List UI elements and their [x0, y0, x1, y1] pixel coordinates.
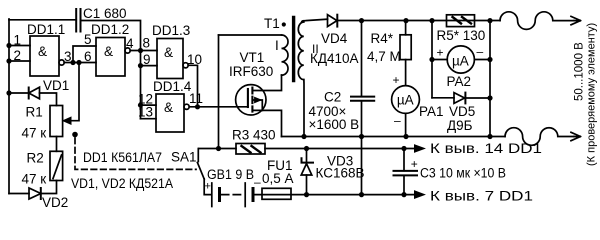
- svg-text:VD1, VD2 КД521А: VD1, VD2 КД521А: [71, 176, 173, 191]
- svg-text:R3 430: R3 430: [232, 128, 276, 143]
- node pin5 tie: [70, 60, 75, 65]
- node VD3 top: [304, 146, 309, 151]
- node pin1 rail: [6, 43, 11, 48]
- fuse FU1: [262, 188, 291, 199]
- wire VD5 right: [465, 97, 490, 99]
- svg-text:GB1 9 В: GB1 9 В: [207, 167, 254, 182]
- wire tie pins 9,12,13: [140, 51, 142, 119]
- wire mechanical dashed link: [75, 138, 196, 169]
- resistor R1: [50, 106, 63, 137]
- capacitor C2: [361, 21, 363, 97]
- wire C2 to ground: [361, 101, 363, 195]
- wire HV probe top wavy: [500, 12, 574, 30]
- wire SA1 drop: [197, 149, 199, 162]
- node C1/pin4/pin8: [138, 48, 143, 53]
- battery GB1 cell2: [244, 183, 246, 207]
- wire PA2 left column: [431, 21, 433, 98]
- svg-text:11: 11: [189, 91, 203, 106]
- node VD5 right: [487, 95, 492, 100]
- node R5 left: [429, 18, 434, 23]
- svg-text:+: +: [411, 157, 418, 171]
- svg-text:КД410А: КД410А: [310, 51, 359, 66]
- resistor R3: [236, 144, 265, 155]
- svg-text:10: 10: [187, 52, 202, 67]
- transistor VT1 body circle: [236, 85, 266, 115]
- node pin2 rail: [6, 58, 11, 63]
- svg-text:IRF630: IRF630: [229, 64, 273, 79]
- wire primary top: [219, 34, 282, 36]
- svg-text:DD1.3: DD1.3: [152, 23, 190, 38]
- wire secondary top to VD4: [302, 19, 328, 22]
- svg-text:0,5 А: 0,5 А: [262, 171, 294, 186]
- svg-text:К выв. 7 DD1: К выв. 7 DD1: [430, 189, 533, 204]
- R2 adjust diagonal: [53, 155, 62, 179]
- svg-text:R4*: R4*: [371, 31, 394, 46]
- svg-text:47 к: 47 к: [22, 172, 47, 187]
- svg-text:DD1 К561ЛА7: DD1 К561ЛА7: [83, 150, 162, 165]
- svg-text:13: 13: [138, 105, 153, 120]
- svg-text:5: 5: [84, 32, 92, 47]
- svg-text:КС168В: КС168В: [316, 166, 365, 181]
- svg-text:+: +: [393, 73, 400, 87]
- wire R2 bottom: [42, 181, 57, 194]
- wire HV return rail1: [282, 136, 506, 138]
- svg-text:2: 2: [14, 48, 22, 63]
- node C2 rail1: [359, 134, 364, 139]
- DD1.1 output bubble: [59, 60, 64, 65]
- svg-text:T1: T1: [264, 16, 280, 31]
- wire pin4 to pin8: [130, 50, 157, 52]
- svg-text:&: &: [164, 45, 173, 60]
- arrow HV probe top: [571, 16, 581, 24]
- svg-text:I: I: [275, 38, 279, 53]
- wire R1 wiper: [66, 63, 79, 121]
- VT1 drain stub: [252, 75, 281, 91]
- svg-text:9: 9: [143, 52, 151, 67]
- VT1 source stub: [252, 110, 281, 136]
- svg-text:+: +: [205, 181, 211, 193]
- svg-text:C2: C2: [324, 90, 341, 105]
- wire pin1: [9, 45, 30, 47]
- arrow to pin7: [415, 191, 425, 198]
- VT1 channel bar: [251, 88, 253, 112]
- node PA2 right: [487, 57, 492, 62]
- R3 power slashes: [242, 146, 261, 153]
- wire pin10 down to pin11: [188, 65, 197, 107]
- wire SA1 to battery: [204, 179, 211, 195]
- T1 polarity dot: [282, 22, 286, 26]
- svg-text:47 к: 47 к: [22, 126, 47, 141]
- svg-text:С3 10 мк ×10 В: С3 10 мк ×10 В: [420, 166, 506, 181]
- wire VD1 to R1: [40, 93, 57, 106]
- arrow HV probe bottom: [571, 132, 581, 140]
- svg-text:3: 3: [64, 49, 72, 64]
- wire plus9V vertical: [218, 35, 220, 149]
- node pin10/11: [195, 104, 200, 109]
- resistor R5: [447, 15, 475, 27]
- VT1 body arrow: [252, 100, 262, 110]
- svg-text:VT1: VT1: [240, 50, 265, 65]
- wire PA2 left stub: [432, 59, 447, 61]
- wire R1 to R2: [56, 137, 58, 152]
- svg-text:–: –: [254, 175, 261, 189]
- node R5 right: [487, 18, 492, 23]
- svg-text:C1 680: C1 680: [83, 6, 127, 21]
- wire pin13 stub: [141, 118, 157, 120]
- svg-text:R2: R2: [27, 151, 44, 166]
- transformer T1 primary winding: [282, 35, 289, 75]
- node PA2 left: [429, 57, 434, 62]
- meter PA2: [447, 46, 474, 73]
- svg-text:–: –: [477, 45, 484, 59]
- arrow to pin14: [415, 145, 425, 152]
- svg-text:+: +: [437, 46, 444, 60]
- svg-text:×1600 В: ×1600 В: [309, 117, 360, 132]
- svg-text:R1: R1: [26, 105, 43, 120]
- node wiper pin3: [76, 60, 81, 65]
- DD1.2 output bubble: [125, 48, 130, 53]
- svg-text:µА: µА: [397, 93, 414, 108]
- R1 wiper arrowhead: [63, 117, 71, 124]
- svg-text:8: 8: [143, 36, 151, 51]
- transformer T1 core: [292, 18, 295, 81]
- svg-text:R5* 130: R5* 130: [437, 28, 486, 43]
- node PA1 bottom: [403, 134, 408, 139]
- wire rail2 supply: [265, 148, 420, 150]
- wire secondary bottom down: [303, 80, 305, 137]
- node C2 top: [359, 18, 364, 23]
- wire rail to VD2: [9, 193, 29, 195]
- resistor R4: [405, 21, 407, 35]
- wire pin5 tie: [73, 46, 96, 63]
- node VD1 rail: [6, 90, 11, 95]
- wire gate row to VT1: [189, 106, 248, 108]
- op-amp DD1.3 gate box: [157, 39, 183, 79]
- wire left rail: [8, 19, 10, 194]
- meter PA1: [392, 86, 420, 114]
- wire top feedback to C1: [9, 19, 76, 21]
- wire VD1 row: [9, 92, 28, 94]
- wire pin2: [9, 60, 30, 62]
- svg-text:&: &: [38, 44, 47, 59]
- svg-text:(К проверяемому элементу): (К проверяемому элементу): [586, 23, 598, 166]
- svg-text:PA1: PA1: [419, 104, 444, 119]
- svg-text:50...1000 В: 50...1000 В: [574, 42, 586, 101]
- svg-text:&: &: [104, 44, 113, 59]
- switch SA1 lever: [197, 163, 204, 180]
- wire VD5 left: [432, 97, 454, 99]
- R5 power slashes: [453, 17, 472, 24]
- node R4 top: [403, 18, 408, 23]
- svg-text:VD5: VD5: [449, 104, 475, 119]
- zener VD3: [306, 149, 308, 164]
- node C2 ground: [359, 192, 364, 197]
- svg-text:6: 6: [84, 49, 92, 64]
- svg-text:&: &: [164, 100, 173, 115]
- node secondary bottom: [301, 134, 306, 139]
- svg-text:4: 4: [126, 36, 134, 51]
- wire C1 right to pin4 node: [81, 21, 141, 51]
- VT1 gate bar: [247, 89, 249, 107]
- svg-text:VD2: VD2: [42, 195, 68, 210]
- node PA2 block bottom: [487, 134, 492, 139]
- wire SA1 to R3 row: [199, 148, 236, 150]
- DD1.3 output bubble: [183, 63, 188, 68]
- diode VD1: [28, 88, 30, 99]
- svg-text:–: –: [394, 114, 401, 128]
- wire HV probe bottom wavy: [505, 128, 574, 146]
- node C3 ground: [401, 192, 406, 197]
- svg-text:PA2: PA2: [447, 74, 472, 89]
- wire pin12 stub: [141, 104, 157, 106]
- wire ground rail3: [254, 194, 420, 196]
- svg-text:VD4: VD4: [321, 31, 348, 46]
- wire battery dashed middle: [222, 194, 244, 196]
- diode VD4: [328, 15, 338, 27]
- svg-text:1: 1: [14, 33, 22, 48]
- battery GB1 cell1: [211, 183, 213, 207]
- svg-text:DD1.2: DD1.2: [91, 22, 129, 37]
- transformer T1 secondary winding: [298, 22, 304, 80]
- capacitor C1: [76, 9, 80, 32]
- diode VD5: [454, 93, 465, 104]
- diode VD2: [40, 188, 42, 199]
- op-amp DD1.1 gate box: [30, 36, 59, 76]
- svg-text:SA1: SA1: [171, 150, 197, 165]
- wire PA1 to rail1: [405, 113, 407, 136]
- svg-text:DD1.1: DD1.1: [27, 22, 65, 37]
- resistor R2: [50, 151, 63, 180]
- node C3 top: [401, 146, 406, 151]
- wire PA2 right column: [489, 21, 491, 137]
- node battery plus: [216, 146, 221, 151]
- svg-text:DD1.4: DD1.4: [153, 79, 192, 94]
- node pin12: [138, 103, 143, 108]
- mechanical link dot: [72, 132, 78, 138]
- wire pin9 stub: [141, 65, 158, 67]
- svg-text:Д9Б: Д9Б: [447, 118, 473, 133]
- svg-text:4,7 М: 4,7 М: [367, 49, 401, 64]
- DD1.4 output bubble: [184, 104, 189, 109]
- wire HV top rail: [337, 20, 500, 22]
- svg-text:µА: µА: [452, 54, 469, 69]
- capacitor C3: [403, 149, 405, 171]
- node VD3 ground: [304, 192, 309, 197]
- op-amp DD1.2 gate box: [96, 38, 125, 77]
- svg-text:VD1: VD1: [43, 78, 69, 93]
- svg-text:К выв. 14 DD1: К выв. 14 DD1: [430, 141, 542, 156]
- op-amp DD1.4 gate box: [156, 94, 184, 132]
- wire pin3 to pin6: [64, 62, 96, 64]
- wire PA2 right stub: [474, 59, 490, 61]
- node pin9: [138, 63, 143, 68]
